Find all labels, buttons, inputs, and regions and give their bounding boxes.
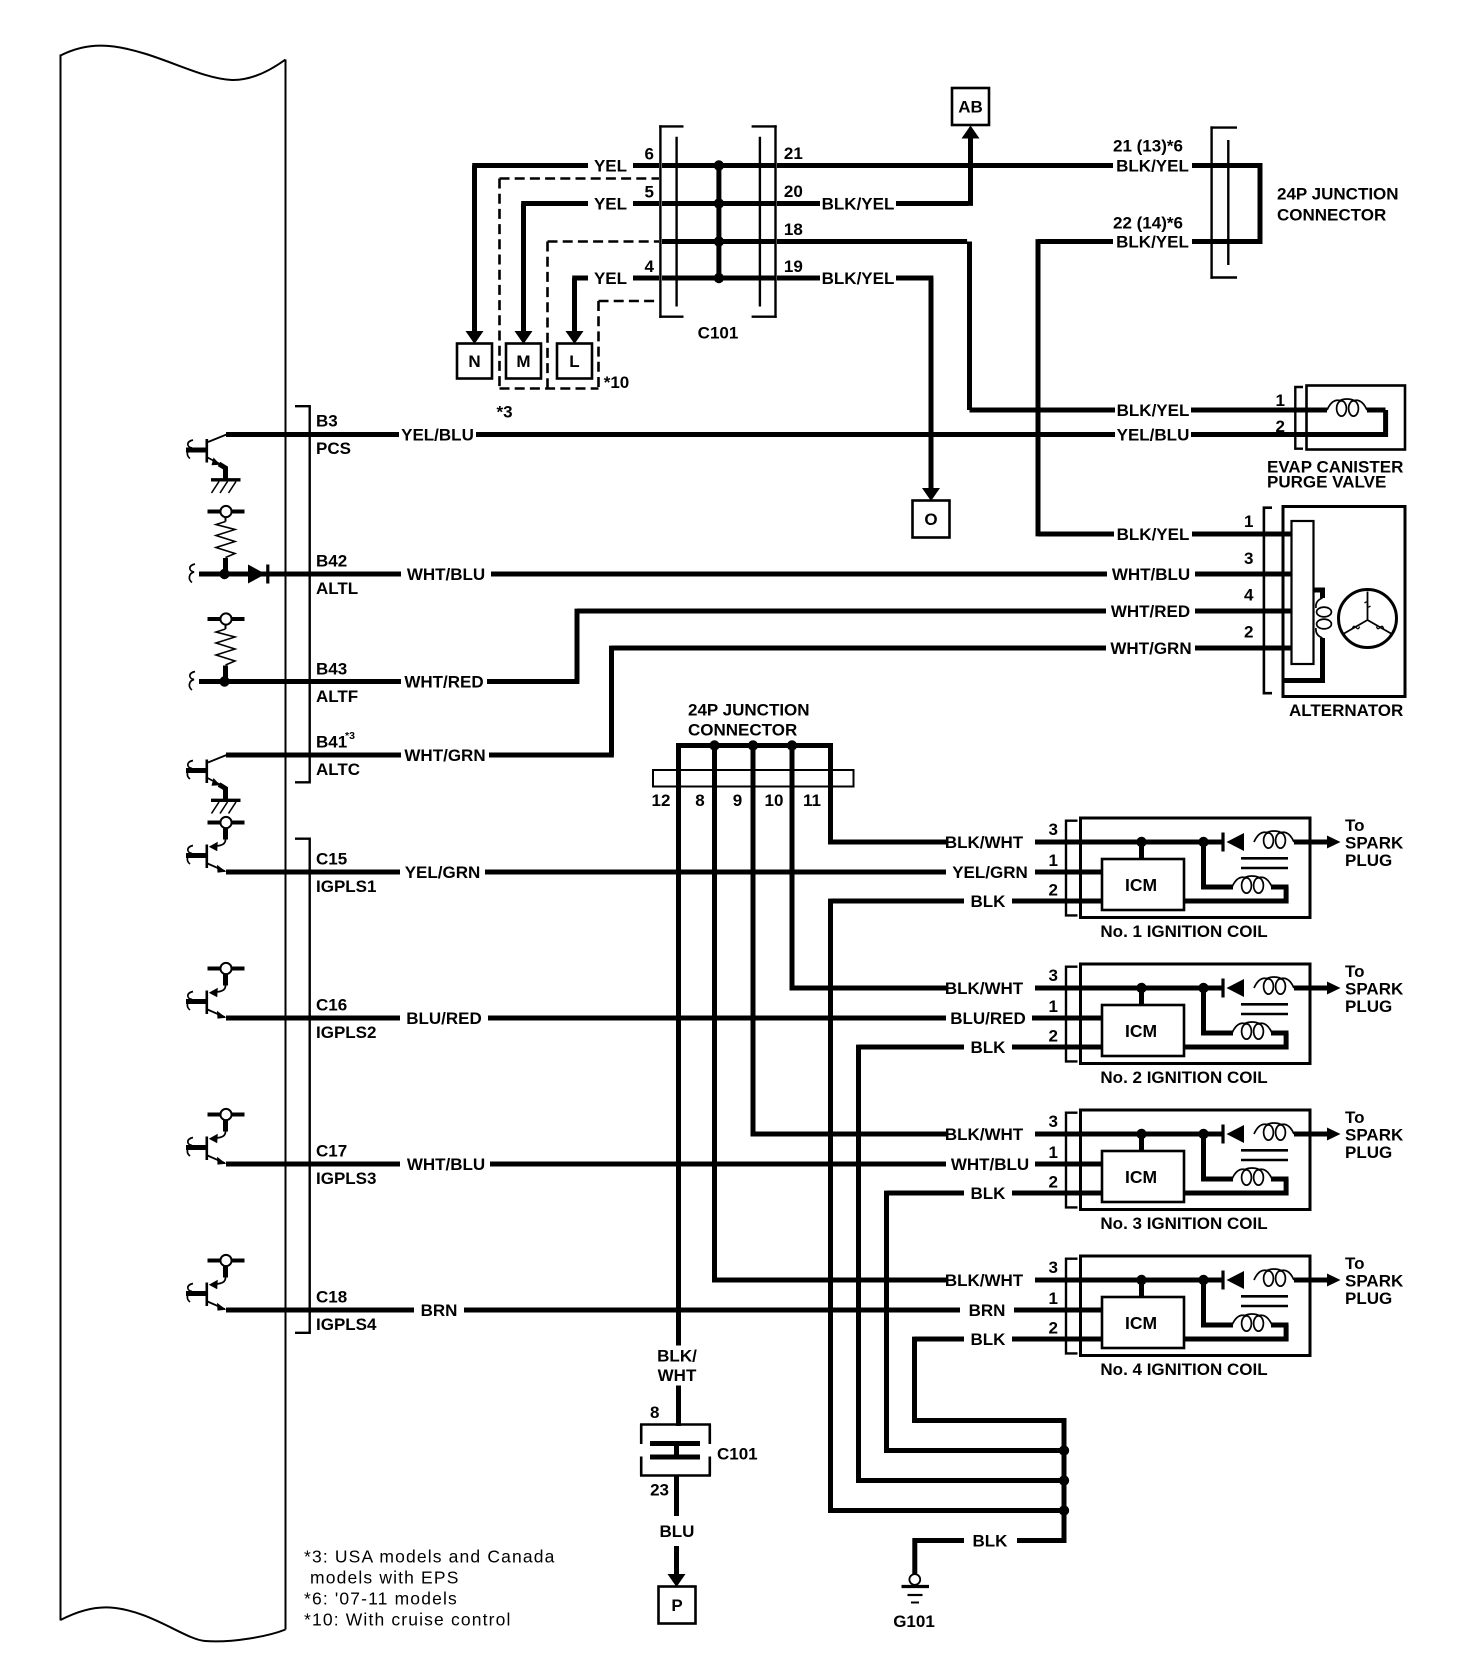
svg-text:BLK/WHT: BLK/WHT [945, 1271, 1024, 1290]
svg-text:IGPLS1: IGPLS1 [316, 877, 376, 896]
svg-text:CONNECTOR: CONNECTOR [1277, 206, 1386, 225]
svg-text:PCS: PCS [316, 439, 351, 458]
svg-text:models with EPS: models with EPS [310, 1568, 460, 1588]
svg-text:BLU: BLU [660, 1522, 695, 1541]
svg-text:BRN: BRN [421, 1301, 458, 1320]
svg-text:IGPLS2: IGPLS2 [316, 1023, 376, 1042]
svg-text:IGPLS3: IGPLS3 [316, 1169, 376, 1188]
svg-text:WHT/GRN: WHT/GRN [1110, 639, 1191, 658]
svg-text:WHT/RED: WHT/RED [1111, 602, 1190, 621]
svg-text:B43: B43 [316, 660, 347, 679]
svg-text:2: 2 [1244, 623, 1253, 642]
svg-text:4: 4 [1244, 586, 1254, 605]
svg-text:BLK: BLK [971, 1184, 1007, 1203]
svg-text:24P JUNCTION: 24P JUNCTION [1277, 185, 1399, 204]
svg-text:*3: USA models and Canada: *3: USA models and Canada [304, 1547, 556, 1567]
svg-text:*10: With cruise control: *10: With cruise control [304, 1610, 512, 1630]
svg-text:YEL: YEL [594, 195, 627, 214]
svg-text:G101: G101 [893, 1612, 935, 1631]
svg-text:3: 3 [1244, 549, 1253, 568]
svg-text:BLK/YEL: BLK/YEL [1116, 233, 1189, 252]
svg-text:YEL: YEL [594, 269, 627, 288]
svg-text:BLK/WHT: BLK/WHT [945, 833, 1024, 852]
svg-text:6: 6 [645, 145, 654, 164]
svg-text:YEL/BLU: YEL/BLU [401, 426, 474, 445]
svg-text:BLK/: BLK/ [657, 1347, 697, 1366]
svg-text:*3: *3 [345, 730, 355, 742]
svg-text:BLK: BLK [971, 1330, 1007, 1349]
svg-text:BLK: BLK [971, 1038, 1007, 1057]
svg-text:WHT/BLU: WHT/BLU [407, 1155, 485, 1174]
svg-text:BLK: BLK [973, 1532, 1009, 1551]
svg-text:BLK/YEL: BLK/YEL [1117, 401, 1190, 420]
svg-text:21: 21 [784, 144, 803, 163]
svg-text:19: 19 [784, 257, 803, 276]
svg-text:10: 10 [765, 791, 784, 810]
svg-text:C18: C18 [316, 1288, 347, 1307]
svg-text:BLK/YEL: BLK/YEL [822, 269, 895, 288]
svg-text:WHT/BLU: WHT/BLU [407, 565, 485, 584]
svg-text:22 (14)*6: 22 (14)*6 [1113, 214, 1183, 233]
svg-text:B42: B42 [316, 552, 347, 571]
svg-text:M: M [516, 352, 530, 371]
svg-text:18: 18 [784, 220, 803, 239]
svg-text:ALTC: ALTC [316, 760, 360, 779]
svg-text:BLK/YEL: BLK/YEL [822, 195, 895, 214]
svg-text:AB: AB [958, 98, 983, 117]
svg-text:BLK: BLK [971, 892, 1007, 911]
svg-text:BLK/WHT: BLK/WHT [945, 979, 1024, 998]
svg-text:4: 4 [645, 257, 655, 276]
svg-text:C101: C101 [698, 324, 739, 343]
svg-text:C16: C16 [316, 996, 347, 1015]
svg-text:WHT/BLU: WHT/BLU [1112, 565, 1190, 584]
svg-text:24P JUNCTION: 24P JUNCTION [688, 701, 810, 720]
svg-text:C15: C15 [316, 850, 347, 869]
svg-text:ALTERNATOR: ALTERNATOR [1289, 701, 1403, 720]
svg-text:*10: *10 [604, 373, 630, 392]
svg-text:WHT/BLU: WHT/BLU [951, 1155, 1029, 1174]
svg-text:B41: B41 [316, 733, 347, 752]
svg-text:ALTF: ALTF [316, 687, 358, 706]
svg-text:8: 8 [650, 1403, 659, 1422]
svg-text:CONNECTOR: CONNECTOR [688, 721, 797, 740]
svg-text:BLK/YEL: BLK/YEL [1116, 157, 1189, 176]
svg-text:9: 9 [733, 791, 742, 810]
svg-text:1: 1 [1244, 512, 1253, 531]
svg-text:L: L [569, 352, 579, 371]
svg-text:BLU/RED: BLU/RED [950, 1009, 1026, 1028]
svg-text:WHT: WHT [658, 1366, 697, 1385]
svg-text:C101: C101 [717, 1445, 758, 1464]
svg-text:P: P [671, 1596, 682, 1615]
svg-text:8: 8 [695, 791, 704, 810]
svg-text:IGPLS4: IGPLS4 [316, 1315, 377, 1334]
svg-text:N: N [468, 352, 480, 371]
svg-text:No. 4 IGNITION COIL: No. 4 IGNITION COIL [1100, 1360, 1267, 1379]
svg-text:O: O [924, 510, 937, 529]
svg-text:*3: *3 [496, 403, 512, 422]
svg-text:12: 12 [652, 791, 671, 810]
svg-text:No. 3 IGNITION COIL: No. 3 IGNITION COIL [1100, 1214, 1267, 1233]
svg-text:11: 11 [803, 791, 821, 810]
svg-text:YEL: YEL [594, 157, 627, 176]
svg-text:*6: '07-11 models: *6: '07-11 models [304, 1589, 458, 1609]
svg-text:2: 2 [1276, 417, 1285, 436]
svg-text:BLK/WHT: BLK/WHT [945, 1125, 1024, 1144]
svg-text:21 (13)*6: 21 (13)*6 [1113, 137, 1183, 156]
svg-text:YEL/GRN: YEL/GRN [952, 863, 1028, 882]
svg-text:BLU/RED: BLU/RED [406, 1009, 482, 1028]
svg-text:YEL/BLU: YEL/BLU [1117, 426, 1190, 445]
svg-text:No. 2 IGNITION COIL: No. 2 IGNITION COIL [1100, 1068, 1267, 1087]
svg-text:ALTL: ALTL [316, 579, 358, 598]
svg-text:23: 23 [650, 1481, 669, 1500]
svg-text:C17: C17 [316, 1142, 347, 1161]
svg-text:No. 1 IGNITION COIL: No. 1 IGNITION COIL [1100, 922, 1267, 941]
svg-text:BRN: BRN [969, 1301, 1006, 1320]
svg-text:PURGE VALVE: PURGE VALVE [1267, 473, 1386, 492]
svg-text:20: 20 [784, 182, 803, 201]
svg-text:YEL/GRN: YEL/GRN [405, 863, 481, 882]
svg-text:1: 1 [1276, 391, 1285, 410]
svg-text:B3: B3 [316, 412, 338, 431]
svg-text:WHT/GRN: WHT/GRN [404, 746, 485, 765]
svg-text:5: 5 [645, 183, 654, 202]
svg-text:WHT/RED: WHT/RED [404, 673, 483, 692]
svg-text:BLK/YEL: BLK/YEL [1117, 525, 1190, 544]
